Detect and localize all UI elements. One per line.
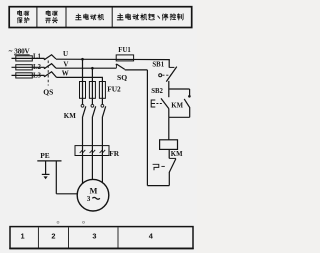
- svg-text:V: V: [63, 60, 68, 68]
- wire SQ output: [125, 69, 148, 71]
- header label 主电动机起、停控制: [117, 14, 183, 20]
- fuse (power protection) phase L2: [16, 65, 33, 70]
- header label 电源保护: [18, 11, 29, 23]
- PE wire down: [55, 161, 57, 194]
- wire down to coil: [168, 117, 170, 140]
- svg-text:KM: KM: [64, 112, 76, 120]
- wire L1 input: [12, 57, 45, 59]
- thermal relay FR heater box: [75, 146, 109, 156]
- pushbutton SB2 actuator dashed link: [156, 103, 161, 105]
- switch QS blade phase 1: [44, 55, 56, 60]
- pushbutton SB1 actuator circle: [159, 74, 162, 77]
- pushbutton SB2 blade: [161, 98, 169, 109]
- svg-text:~: ~: [9, 48, 13, 56]
- svg-text:2: 2: [51, 232, 55, 241]
- switch QS linkage dashed line: [47, 61, 49, 86]
- fuse FU1: [116, 55, 133, 61]
- wire drop phase U: [82, 59, 84, 104]
- thermal relay FR trip bracket: [153, 164, 159, 170]
- header column divider 1: [36, 7, 38, 27]
- wire KM aux bottom: [189, 108, 191, 117]
- wire L2 input: [12, 66, 45, 68]
- wire control bottom run: [147, 185, 169, 187]
- underline of 380V: [14, 54, 30, 56]
- svg-text:PE: PE: [40, 151, 50, 160]
- pushbutton SB1 blade: [166, 67, 177, 82]
- contactor KM main contact 1 blade: [83, 106, 86, 117]
- FR heater element 1: [80, 150, 86, 153]
- svg-text:L1: L1: [33, 54, 42, 61]
- limit switch SQ hinge dot: [116, 64, 118, 66]
- wire KM aux branch down: [189, 89, 191, 96]
- bottom table frame: [10, 227, 193, 249]
- bus V: [56, 67, 116, 69]
- wire drop phase W: [101, 77, 103, 104]
- svg-text:3: 3: [87, 195, 91, 203]
- header column divider 2: [65, 7, 67, 27]
- bottom table divider 3: [117, 227, 119, 248]
- bottom table divider 1: [37, 227, 39, 248]
- wire branch to KM aux: [169, 88, 190, 90]
- svg-text:3: 3: [92, 232, 96, 241]
- svg-text:QS: QS: [43, 88, 53, 97]
- junction dot on V: [91, 67, 94, 70]
- wire below contact 2: [91, 117, 93, 180]
- FR heater element 3: [100, 150, 106, 153]
- svg-text:L2: L2: [33, 64, 42, 71]
- fuse (power protection) phase L3: [16, 73, 33, 78]
- svg-text:SB1: SB1: [152, 61, 164, 68]
- svg-text:U: U: [63, 50, 68, 58]
- bottom table divider 2: [68, 227, 70, 248]
- wire FR contact to bottom: [168, 172, 170, 186]
- junction dot on U: [81, 58, 84, 61]
- header table frame: [9, 7, 192, 28]
- limit switch SQ riser: [115, 65, 117, 68]
- PE wire to motor: [56, 193, 77, 195]
- bus U: [56, 58, 170, 60]
- wire SB2 bottom: [168, 109, 170, 117]
- fuse FU2 phase 3: [99, 82, 105, 99]
- ground symbol stem: [45, 161, 47, 174]
- svg-text:1: 1: [21, 232, 25, 241]
- wire drop phase V: [91, 68, 93, 104]
- ground symbol triangle: [44, 176, 48, 179]
- fuse FU2 phase 1: [80, 82, 86, 99]
- wire control return left vertical: [146, 70, 148, 186]
- PE bar: [37, 160, 61, 162]
- motor M circle: [77, 179, 109, 211]
- wire U to control corner: [168, 60, 170, 68]
- wire L3 input: [12, 74, 45, 76]
- bottom table thick bottom edge: [9, 248, 193, 250]
- header label 主电动机: [76, 14, 104, 20]
- pushbutton SB2 actuator E: [151, 100, 155, 107]
- svg-text:SB2: SB2: [151, 88, 163, 95]
- svg-text:FU2: FU2: [107, 84, 121, 93]
- pushbutton SB1 fixed contact tick: [169, 66, 174, 68]
- svg-text:L3: L3: [33, 73, 42, 80]
- stray scan mark left: [57, 221, 59, 223]
- svg-text:FU1: FU1: [118, 47, 131, 54]
- switch QS blade phase 3: [44, 72, 56, 78]
- svg-text:SQ: SQ: [117, 73, 127, 82]
- pushbutton SB1 actuator dashed link: [162, 74, 170, 76]
- contactor coil KM: [160, 140, 178, 150]
- FR heater element 2: [90, 150, 96, 153]
- wire parallel join bus: [169, 116, 190, 118]
- header label 电源开关: [46, 11, 58, 23]
- contactor KM main contact 3 terminal circle: [101, 104, 104, 107]
- svg-text:W: W: [62, 70, 69, 78]
- thermal relay FR NC contact tick: [169, 157, 176, 159]
- contactor KM main contact 3 blade: [103, 106, 106, 117]
- wire below contact 1: [82, 117, 84, 186]
- contactor KM main contact 2 blade: [93, 106, 96, 117]
- contactor KM main contact 1 terminal circle: [81, 104, 84, 107]
- contactor KM main contact 2 terminal circle: [91, 104, 94, 107]
- switch QS blade phase 2: [44, 64, 56, 69]
- fuse (power protection) phase L1: [16, 56, 33, 61]
- wire SB1 to node: [168, 81, 170, 89]
- svg-text:KM: KM: [171, 103, 183, 110]
- fuse FU2 phase 2: [89, 82, 95, 99]
- wire coil to FR contact: [168, 149, 170, 158]
- page background: [0, 0, 197, 253]
- svg-text:M: M: [90, 187, 98, 196]
- pushbutton SB2 upper wire: [168, 89, 170, 97]
- svg-text:KM: KM: [171, 151, 183, 158]
- bus W: [57, 76, 103, 78]
- thermal relay FR dashed link: [161, 165, 164, 167]
- stray scan mark right: [83, 221, 85, 223]
- wire below contact 3: [101, 117, 103, 184]
- ground symbol bar: [42, 173, 50, 175]
- contactor KM aux contact blade: [184, 99, 190, 108]
- svg-text:FR: FR: [109, 149, 120, 158]
- header column divider 3: [111, 7, 113, 27]
- junction dot KM aux top: [188, 95, 191, 98]
- limit switch SQ blade: [117, 64, 125, 69]
- thermal relay FR NC contact blade: [169, 159, 176, 173]
